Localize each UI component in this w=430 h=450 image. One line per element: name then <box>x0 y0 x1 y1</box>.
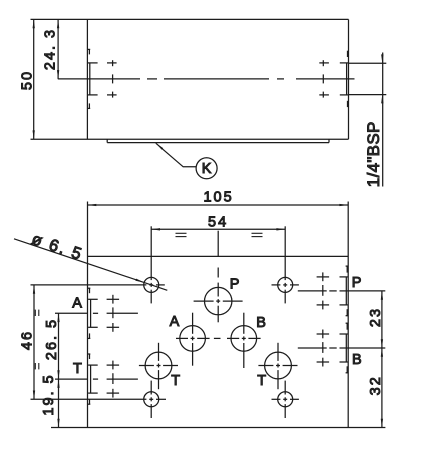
label A (plan) <box>170 314 180 330</box>
dimension 46 (fixing hole row spacing) <box>20 285 39 399</box>
port B circle (plan) <box>227 313 261 368</box>
dimension 105 (plate width) <box>88 189 349 206</box>
fixing hole top-left (dia 6.5) <box>31 226 165 303</box>
gasket strip under plate <box>107 139 329 142</box>
svg-text:54: 54 <box>208 215 228 231</box>
leader K (gasket note) <box>156 143 217 179</box>
dimension 1/4"BSP (port thread) <box>349 53 387 188</box>
plan view outline <box>51 202 385 428</box>
dimension 50 (plate height) <box>20 19 36 139</box>
label P (side port) <box>352 275 362 291</box>
svg-text:23: 23 <box>368 307 384 327</box>
horizontal centre line of side view <box>58 78 355 80</box>
label T (side port) <box>73 361 82 377</box>
svg-text:K: K <box>202 161 212 177</box>
svg-text:ø 6. 5: ø 6. 5 <box>29 230 85 264</box>
port T circle right (plan) <box>258 343 297 389</box>
hidden side port left (1/4 BSP, side view) <box>87 49 116 108</box>
label T left (plan) <box>171 373 180 389</box>
svg-text:T: T <box>73 361 82 377</box>
svg-text:B: B <box>256 315 266 331</box>
svg-text:105: 105 <box>203 189 233 205</box>
hidden side port B (right face) <box>298 323 386 373</box>
dimension 26.5 (A to T port) <box>44 313 60 379</box>
fixing hole top-right (dia 6.5) <box>272 226 299 303</box>
svg-text:T: T <box>257 373 266 389</box>
port P circle (plan) <box>194 283 243 323</box>
hidden side port P (right face) <box>298 266 386 316</box>
svg-text:19. 5: 19. 5 <box>41 373 57 415</box>
svg-text:B: B <box>352 352 362 368</box>
svg-text:A: A <box>170 314 180 330</box>
dash between A and B <box>214 337 221 339</box>
fixing hole bottom-left (dia 6.5) <box>31 381 167 418</box>
dimension 24.3 (port centre from top) <box>43 19 60 79</box>
hidden side port T (left face) <box>55 354 138 404</box>
hidden side port right (1/4 BSP, side view) <box>319 51 348 107</box>
dimension 19.5 (T port to bottom) <box>41 373 60 427</box>
top view outline (side elevation of plate) <box>31 19 349 139</box>
dimension 54 (fixing hole pitch) <box>151 215 285 237</box>
port A circle (plan) <box>176 313 210 366</box>
label T right (plan) <box>257 373 266 389</box>
hidden side port A (left face) <box>55 288 138 338</box>
svg-text:26. 5: 26. 5 <box>44 318 60 360</box>
svg-text:P: P <box>230 277 240 293</box>
label P (plan) <box>230 277 240 293</box>
svg-text:50: 50 <box>20 70 36 90</box>
svg-text:24. 3: 24. 3 <box>43 28 59 70</box>
dimension 32 (B port to bottom) <box>368 348 384 428</box>
vertical centre line of plan view <box>217 231 219 278</box>
svg-text:1/4"BSP: 1/4"BSP <box>364 121 383 187</box>
label A (side port) <box>72 296 82 312</box>
svg-text:P: P <box>352 275 362 291</box>
svg-text:32: 32 <box>368 375 384 395</box>
fixing hole bottom-right (dia 6.5) <box>272 381 299 418</box>
dimension 23 (P to B port) <box>368 291 384 348</box>
port T circle left (plan) <box>139 343 178 389</box>
label B (side port) <box>352 352 362 368</box>
svg-text:46: 46 <box>20 330 36 350</box>
leader dia 6.5 (fixing holes) <box>14 230 167 290</box>
label B (plan) <box>256 315 266 331</box>
svg-text:T: T <box>171 373 180 389</box>
svg-text:A: A <box>72 296 82 312</box>
